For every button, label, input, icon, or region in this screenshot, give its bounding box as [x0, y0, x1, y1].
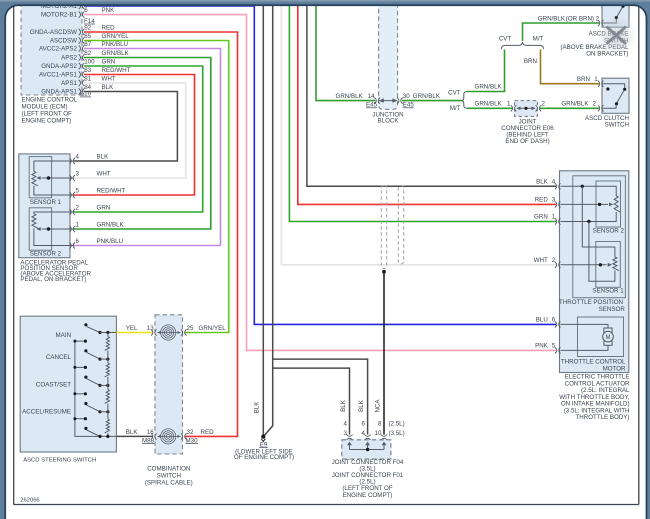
APP sensor pin 6 connector	[69, 242, 71, 248]
svg-text:ENGINE COMPT): ENGINE COMPT)	[22, 118, 72, 125]
svg-text:BLOCK: BLOCK	[378, 117, 400, 124]
svg-text:NCA: NCA	[375, 399, 382, 413]
accelerator pedal position sensor box	[19, 154, 70, 258]
sensor 2 wiper (RED)	[561, 203, 609, 205]
svg-text:BRN: BRN	[577, 76, 590, 83]
ETCA pin 6 connector	[555, 321, 557, 327]
ASCD steering switch box	[20, 316, 116, 452]
combination switch box (dashed)	[155, 315, 183, 454]
combination switch pin 16 connector	[151, 433, 153, 439]
svg-text:PNK: PNK	[535, 343, 549, 350]
wire BRN brace to ASCD clutch switch pin 1	[541, 50, 600, 84]
APP sensor 1 sub-box	[29, 157, 51, 198]
APP sensor 2 resistor	[32, 214, 38, 228]
svg-text:BLK: BLK	[536, 179, 549, 186]
ECM connector box (dashed, cut off at top)	[21, 0, 82, 95]
wire WHT APS1: ECM to APP sensor pin 3	[74, 83, 186, 178]
spiral cable symbol (bottom)	[161, 429, 176, 444]
watermark halo	[0, 0, 1, 1]
APP sensor 1 wiper (WHT)	[49, 177, 75, 179]
wire PNK MOTOR2-B1: ECM to throttle control motor pin 5	[84, 15, 556, 351]
diagram frame left edge	[13, 0, 15, 505]
svg-text:5: 5	[76, 188, 80, 195]
svg-text:APS1: APS1	[61, 80, 77, 87]
svg-text:GRN/BLK: GRN/BLK	[538, 16, 566, 23]
wire GRN/YEL ASCDSW: ECM to combination switch pin 25	[84, 41, 229, 333]
svg-text:GRN/YEL: GRN/YEL	[102, 33, 130, 40]
svg-text:2: 2	[552, 257, 556, 264]
ground E9	[261, 435, 265, 439]
switch MAIN	[84, 323, 87, 326]
svg-text:30: 30	[403, 93, 410, 100]
APP sensor 1 resistor	[32, 171, 38, 185]
svg-text:GRN: GRN	[534, 214, 548, 221]
TPS sensor 1 sub-box	[596, 242, 621, 288]
motor M1	[604, 328, 612, 333]
svg-text:GRN/BLK: GRN/BLK	[336, 93, 364, 100]
APP sensor pin 2 connector	[69, 209, 71, 215]
svg-text:13: 13	[147, 325, 154, 332]
svg-text:10: 10	[375, 430, 382, 437]
svg-text:SENSOR 2: SENSOR 2	[593, 228, 625, 235]
junction BLK	[581, 185, 584, 188]
svg-text:4: 4	[552, 179, 556, 186]
wire BLU MOTOR2-A1: ECM to throttle control motor pin 6	[84, 6, 556, 324]
joint connector pin (middle)	[365, 435, 371, 437]
junction block channel (dashed, cut off at top)	[379, 0, 398, 109]
TPS sensor 1 resistor	[613, 257, 619, 271]
svg-text:1: 1	[507, 101, 511, 108]
sensor 1 wiper (WHT)	[561, 264, 607, 266]
junction node on NCA wire	[382, 270, 386, 274]
svg-text:AVCC1-APS1: AVCC1-APS1	[39, 71, 78, 78]
svg-text:(2.5L): (2.5L)	[389, 420, 405, 427]
svg-text:87: 87	[84, 41, 91, 48]
electric throttle control actuator box	[560, 171, 629, 373]
svg-text:COMBINATION: COMBINATION	[147, 466, 190, 473]
svg-text:(SPIRAL CABLE): (SPIRAL CABLE)	[145, 480, 193, 487]
svg-text:SENSOR 1: SENSOR 1	[30, 199, 62, 206]
svg-text:MAIN: MAIN	[56, 332, 71, 339]
svg-text:GRN/BLK: GRN/BLK	[413, 93, 441, 100]
svg-text:ACCEL/RESUME: ACCEL/RESUME	[22, 409, 71, 416]
TPS sensor 2 resistor	[614, 196, 620, 212]
svg-text:4: 4	[362, 430, 366, 437]
ASCD brake switch box	[602, 5, 629, 27]
wire BLK: ASCD switch to combination switch pin 16	[116, 435, 153, 437]
svg-text:BLU: BLU	[536, 317, 548, 324]
svg-text:3: 3	[344, 430, 348, 437]
sensor 2 top connection (BLK)	[561, 186, 617, 196]
svg-text:GRN/BLK: GRN/BLK	[561, 101, 589, 108]
APP sensor pin 3 connector	[69, 175, 71, 181]
svg-text:MOTOR2-B1: MOTOR2-B1	[41, 12, 78, 19]
wire YEL: ASCD switch to combination switch pin 13	[116, 332, 153, 334]
svg-text:RED: RED	[201, 429, 215, 436]
ASCD clutch switch box	[602, 78, 629, 113]
sensor 1 top connection (BLK branch)	[582, 186, 615, 257]
svg-text:5: 5	[552, 343, 556, 350]
combination switch pin 32 connector	[181, 433, 183, 439]
clutch switch contacts	[602, 84, 625, 89]
TPS sensor 2 sub-box	[596, 181, 621, 227]
svg-text:GRN/BLK: GRN/BLK	[475, 84, 503, 91]
APP sensor 1 bottom connection (RED/WHT)	[34, 186, 74, 195]
svg-text:6: 6	[552, 317, 556, 324]
throttle position sensor inner box	[573, 176, 626, 298]
svg-text:4: 4	[344, 420, 348, 427]
wire BLK vertical to body ground E9 (right) with branches to joint connector	[264, 0, 273, 436]
APP sensor pin 5 connector	[69, 192, 71, 198]
svg-text:M/T: M/T	[533, 36, 544, 43]
svg-text:MOTOR: MOTOR	[603, 366, 626, 373]
ETCA pin 1 connector	[555, 218, 557, 224]
resistor ladder bus	[107, 333, 109, 337]
switch (resume, to common)	[84, 427, 87, 430]
APP sensor 2 top connection (GRN)	[34, 212, 74, 214]
svg-text:MODULE (ECM): MODULE (ECM)	[22, 104, 68, 111]
harness pass-through channel (2.5L)	[381, 186, 386, 269]
wire BLK vertical to TPS pin 4	[307, 0, 556, 186]
clutch switch pin 1 connector	[598, 81, 600, 87]
svg-text:1: 1	[594, 76, 598, 83]
junction block pin 30 connector	[397, 98, 399, 104]
svg-text:85: 85	[84, 33, 91, 40]
APP sensor 2 bottom connection (PNK/BLU)	[34, 228, 74, 245]
E06 pin 1 connector	[511, 105, 513, 111]
joint connector F04/F01 box	[342, 440, 391, 459]
watermark X cursor	[608, 28, 626, 44]
svg-text:AVCC2-APS2: AVCC2-APS2	[39, 45, 78, 52]
svg-text:4: 4	[76, 154, 80, 161]
svg-text:BLK: BLK	[340, 399, 347, 412]
joint connector pin (left)	[346, 435, 352, 437]
svg-text:PEDAL, ON BRACKET): PEDAL, ON BRACKET)	[20, 276, 86, 283]
harness pass-through channel (3.5L)	[398, 186, 403, 265]
svg-text:GNDA-APS2: GNDA-APS2	[41, 63, 77, 70]
svg-text:CANCEL: CANCEL	[46, 354, 72, 361]
svg-text:6: 6	[84, 7, 88, 14]
svg-text:(OR BRN): (OR BRN)	[566, 16, 594, 23]
svg-text:APS2: APS2	[61, 54, 77, 61]
svg-text:SENSOR: SENSOR	[599, 306, 626, 313]
split brace CVT/MT	[461, 92, 467, 109]
joint connector internal bus	[347, 442, 352, 446]
svg-text:ASCD STEERING SWITCH: ASCD STEERING SWITCH	[23, 457, 96, 463]
wire BLK GNDA-APS1: ECM to APP sensor pin 4	[74, 92, 177, 162]
wire RED vertical to TPS pin 3	[298, 0, 556, 204]
motor PNK feed	[561, 345, 609, 350]
wire GRN GNDA-APS2: ECM to APP sensor pin 2	[74, 66, 203, 212]
junction GRN	[587, 220, 590, 223]
wire GRN/BLK E06 to clutch switch pin 2	[540, 107, 599, 109]
MAIN output to YEL	[100, 332, 116, 334]
svg-text:SWITCH: SWITCH	[605, 122, 629, 129]
svg-text:GRN/BLK: GRN/BLK	[475, 101, 503, 108]
resistor R1	[105, 337, 110, 351]
configuration brace CVT/MT (upper)	[501, 42, 543, 49]
svg-text:16: 16	[147, 429, 154, 436]
svg-text:WHT: WHT	[102, 76, 116, 83]
svg-text:SENSOR 2: SENSOR 2	[30, 251, 62, 258]
junction block internal double arrow	[380, 100, 397, 102]
ETCA pin 3 connector	[555, 201, 557, 207]
svg-text:BRN: BRN	[524, 58, 537, 65]
svg-text:BLK: BLK	[254, 401, 261, 414]
svg-text:GRN: GRN	[97, 205, 111, 212]
svg-text:8: 8	[378, 420, 382, 427]
clutch switch pin 2 connector	[598, 105, 600, 111]
svg-text:THROTTLE BODY): THROTTLE BODY)	[576, 414, 630, 421]
svg-text:2: 2	[76, 205, 80, 212]
combination switch pin 25 connector	[181, 329, 183, 335]
wire BLK branch to joint connector middle pin	[273, 359, 368, 434]
svg-text:BLK: BLK	[126, 429, 139, 436]
svg-text:1: 1	[552, 214, 556, 221]
svg-text:YEL: YEL	[126, 325, 138, 332]
svg-text:CVT: CVT	[499, 36, 512, 43]
resistor R4	[105, 419, 110, 433]
svg-text:BLK: BLK	[358, 399, 365, 412]
wire GRN vertical to TPS pin 1	[289, 0, 556, 222]
wire RED GNDA-ASCDSW: ECM to combination switch pin 32	[84, 32, 238, 436]
joint connector E06 box	[515, 101, 538, 117]
svg-text:(LEFT FRONT OF: (LEFT FRONT OF	[22, 111, 73, 118]
svg-text:(3.5L): (3.5L)	[389, 430, 405, 437]
throttle control motor box	[578, 317, 624, 357]
APP sensor 1 top connection (BLK)	[34, 161, 74, 171]
wire BLK branch to joint connector left pin	[273, 368, 350, 434]
svg-text:3: 3	[76, 171, 80, 178]
svg-text:ENGINE CONTROL: ENGINE CONTROL	[22, 97, 78, 104]
ETCA pin 2 connector	[555, 262, 557, 268]
APP sensor 2 wiper (GRN/BLK)	[49, 228, 75, 230]
switch CANCEL	[84, 349, 87, 352]
diagram frame bottom edge	[14, 504, 639, 506]
wire GRN/BLK up to ASCD brake switch	[523, 23, 600, 41]
wire RED/WHT AVCC1-APS1: ECM to APP sensor pin 5	[74, 75, 195, 196]
svg-text:BLK: BLK	[102, 84, 115, 91]
svg-text:2: 2	[542, 101, 546, 108]
wire GRN/BLK M/T branch to joint connector E06	[467, 107, 513, 109]
combination switch pin 13 connector	[151, 329, 153, 335]
motor BLU feed	[561, 324, 609, 328]
svg-text:81: 81	[84, 76, 91, 83]
sensor 1 bottom connection (GRN branch)	[589, 222, 615, 282]
svg-text:84: 84	[84, 84, 91, 91]
diagram frame right edge	[638, 0, 640, 505]
ETCA pin 4 connector	[555, 183, 557, 189]
svg-text:82: 82	[84, 50, 91, 57]
sensor 2 bottom connection (GRN)	[561, 212, 617, 222]
switch ACCEL/RESUME	[84, 402, 87, 405]
svg-text:GNDA-ASCDSW: GNDA-ASCDSW	[30, 29, 77, 36]
svg-text:262066: 262066	[20, 498, 39, 504]
wire WHT vertical to TPS pin 2	[281, 0, 556, 265]
svg-text:RED/WHT: RED/WHT	[102, 67, 131, 74]
svg-text:END OF DASH): END OF DASH)	[505, 138, 549, 145]
svg-text:100: 100	[84, 59, 95, 66]
svg-text:RED: RED	[102, 25, 116, 32]
svg-text:WHT: WHT	[97, 171, 111, 178]
switch COAST/SET	[84, 376, 87, 379]
svg-text:25: 25	[187, 325, 194, 332]
resistor R2	[105, 363, 110, 377]
svg-text:M: M	[606, 335, 611, 341]
svg-text:COAST/SET: COAST/SET	[36, 382, 71, 389]
svg-text:M/T: M/T	[450, 105, 461, 112]
svg-text:32: 32	[187, 429, 194, 436]
wire NCA to joint connector right pin	[383, 272, 385, 435]
svg-text:2: 2	[593, 101, 597, 108]
resistor R3	[105, 390, 110, 404]
joint connector pin (right)	[381, 435, 387, 437]
wire PNK/BLU AVCC2-APS2: ECM to APP sensor pin 6	[74, 49, 221, 246]
spiral cable symbol (top)	[161, 325, 176, 340]
APP sensor pin 1 connector	[69, 226, 71, 232]
svg-text:GRN/BLK: GRN/BLK	[102, 50, 130, 57]
brake switch pin 2 connector	[598, 20, 600, 26]
svg-text:GRN: GRN	[102, 59, 116, 66]
wire GRN/BLK vertical to junction block pin 14	[316, 0, 375, 101]
svg-text:GRN/YEL: GRN/YEL	[199, 325, 227, 332]
APP sensor 2 sub-box	[29, 208, 51, 250]
brake switch contacts	[602, 18, 616, 23]
svg-text:BLK: BLK	[97, 154, 110, 161]
svg-text:6: 6	[76, 238, 80, 245]
wire BLK vertical to body ground E9 (left)	[262, 0, 264, 436]
E06 pin 2 connector	[536, 105, 538, 111]
junction block pin 14 connector	[374, 98, 376, 104]
svg-text:1: 1	[76, 222, 80, 229]
wire GRN/BLK CVT branch	[467, 50, 505, 92]
wire GRN/BLK junction block to split brace	[402, 100, 462, 102]
svg-text:ENGINE COMPT): ENGINE COMPT)	[343, 492, 393, 499]
svg-text:WHT: WHT	[534, 257, 548, 264]
wire GRN/BLK APS2: ECM to APP sensor pin 1	[74, 58, 211, 230]
APP sensor pin 4 connector	[69, 158, 71, 164]
ETCA pin 5 connector	[555, 347, 557, 353]
svg-text:14: 14	[368, 93, 375, 100]
svg-text:OF ENGINE COMPT): OF ENGINE COMPT)	[234, 454, 294, 461]
ASCD left bus	[75, 341, 117, 436]
svg-text:92: 92	[84, 25, 91, 32]
svg-text:RED: RED	[535, 197, 549, 204]
svg-text:6: 6	[362, 420, 366, 427]
svg-text:GRN/BLK: GRN/BLK	[97, 222, 125, 229]
svg-text:ASCDSW: ASCDSW	[50, 37, 77, 44]
svg-text:GNDA-APS1: GNDA-APS1	[41, 88, 77, 95]
svg-text:PNK: PNK	[102, 7, 116, 14]
svg-text:SWITCH: SWITCH	[157, 473, 181, 480]
svg-text:83: 83	[84, 67, 91, 74]
svg-text:PNK/BLU: PNK/BLU	[102, 41, 128, 48]
svg-text:RED/WHT: RED/WHT	[97, 188, 126, 195]
ASCD left bus contact stubs	[75, 366, 86, 368]
svg-text:PNK/BLU: PNK/BLU	[97, 238, 123, 245]
svg-text:3: 3	[552, 197, 556, 204]
svg-text:CVT: CVT	[448, 90, 461, 97]
svg-text:SENSOR 1: SENSOR 1	[592, 288, 624, 295]
